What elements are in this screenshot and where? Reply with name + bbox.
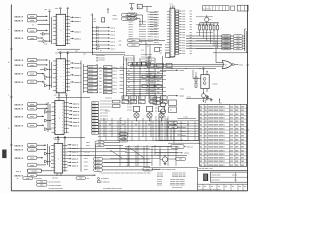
- svg-text:xxx: xxx: [55, 8, 58, 10]
- bus U3 left vertical: [47, 102, 49, 132]
- bottom-center gate cluster: [143, 168, 153, 171]
- svg-text:xxxx x: xxxx x: [72, 155, 79, 157]
- svg-text:xxx x: xxx x: [126, 159, 130, 161]
- svg-text:xxxx x: xxxx x: [74, 31, 81, 33]
- svg-text:xxx: xxx: [45, 9, 48, 11]
- svg-text:xxxxx xxxx xxxx x: xxxxx xxxx xxxx x: [208, 117, 225, 119]
- net label box right row 1: [222, 35, 232, 38]
- svg-text:x x x x x x: x x x x x x: [203, 8, 211, 10]
- svg-text:xxxxx xxxx xxxx x: xxxxx xxxx xxxx x: [208, 132, 225, 134]
- mid right stack rects: [153, 97, 160, 100]
- IC U7 body: [201, 75, 209, 89]
- wires label col to U5: [139, 22, 146, 42]
- svg-text:xxxx x: xxxx x: [73, 107, 80, 109]
- svg-text:xxxx xx: xxxx xx: [154, 36, 159, 38]
- svg-text:xx xxxxxxx xxxx xxx xxxx: xx xxxxxxx xxxx xxx xxxx: [103, 188, 122, 190]
- net label box right row 1 b: [234, 35, 243, 38]
- svg-text:xxx: xxx: [190, 29, 193, 31]
- ground below Q5: [164, 162, 166, 163]
- svg-text:xx xxxxxxx: xx xxxxxxx: [101, 178, 109, 180]
- svg-text:xxx x: xxx x: [113, 89, 117, 91]
- svg-text:xxx: xxx: [190, 27, 193, 29]
- svg-text:xxx x: xxx x: [111, 49, 116, 51]
- svg-text:xxx: xxx: [219, 102, 222, 104]
- svg-text:xxxx: xxxx: [104, 85, 108, 87]
- svg-text:xxxx: xxxx: [182, 29, 185, 31]
- label column left of U5 ovals: [127, 13, 137, 16]
- bypass capacitor C3: [92, 30, 93, 31]
- svg-text:xx: xx: [91, 15, 93, 17]
- net row y140.2 right: [155, 139, 182, 141]
- IC U4 power pin B: [64, 140, 66, 144]
- mid right vertical drops: [156, 116, 168, 141]
- IC U2 output wire y=82.0: [70, 81, 72, 83]
- svg-text:xxx: xxx: [87, 178, 90, 180]
- bypass capacitor C5 label: [108, 37, 110, 39]
- revision strip extension: [231, 6, 235, 10]
- svg-text:xxxxx xxxx xxxx x: xxxxx xxxx xxxx x: [208, 128, 225, 130]
- IC U5 left pins and labels: [167, 12, 170, 43]
- notes separator line: [152, 167, 198, 169]
- svg-text:xxx: xxx: [97, 166, 100, 168]
- svg-text:xx: xx: [96, 61, 98, 63]
- svg-text:xx: xx: [100, 50, 102, 52]
- wires to table left edge: [160, 140, 199, 142]
- arrow below Q6: [203, 98, 205, 101]
- svg-text:xxx x: xxx x: [111, 38, 116, 40]
- svg-text:x xxx: x xxx: [184, 117, 188, 119]
- bypass capacitor C3 label: [108, 30, 110, 32]
- IC U2 left pins: [53, 61, 56, 91]
- wires left of U5 feed rows: [150, 12, 158, 34]
- resistor bank bus: [200, 22, 219, 24]
- sub-IC text rows: [146, 58, 156, 63]
- svg-text:xxx: xxx: [122, 137, 125, 139]
- net label row y118.5 mid right: [178, 117, 197, 119]
- bypass capacitor C6: [92, 41, 93, 42]
- svg-text:xxxx xx: xxxx xx: [154, 39, 159, 41]
- svg-text:xxxx xx: xxxx xx: [187, 146, 193, 148]
- svg-text:xxxx-x: xxxx-x: [15, 60, 24, 62]
- svg-text:xx xxx: xx xxx: [127, 104, 132, 106]
- svg-text:xxx x: xxx x: [111, 27, 116, 29]
- svg-text:7: 7: [8, 95, 9, 97]
- zone tick right border y130: [246, 129, 249, 131]
- svg-text:xx: xx: [96, 92, 98, 94]
- svg-text:xxx: xxx: [26, 178, 29, 180]
- svg-text:xxxx x: xxxx x: [73, 122, 80, 124]
- resistor RN5: [213, 23, 215, 26]
- svg-text:xx: xx: [244, 186, 246, 188]
- net row y152.8 right: [155, 152, 182, 154]
- IC U3 left pins: [52, 103, 55, 132]
- vertical drop x140: [139, 58, 141, 99]
- svg-text:xx: xx: [225, 186, 227, 188]
- IC U3 power pin B: [65, 97, 67, 101]
- wire below RN5: [213, 30, 215, 46]
- svg-text:xxx: xxx: [237, 48, 240, 50]
- svg-text:xxx: xxx: [119, 40, 122, 42]
- svg-text:x: x: [58, 158, 59, 160]
- svg-text:xxxxx xxxx xxxx x: xxxxx xxxx xxxx x: [208, 106, 225, 108]
- svg-text:xxxx: xxxx: [182, 21, 185, 23]
- mid-bottom extra verticals: [100, 121, 195, 141]
- right bus to border connections: [245, 28, 247, 30]
- net label box right row 6: [222, 47, 232, 50]
- svg-text:xxx: xxx: [190, 21, 193, 23]
- svg-text:xxxxx xxxx xxxx x: xxxxx xxxx xxxx x: [208, 147, 225, 149]
- svg-text:xxxx: xxxx: [182, 53, 185, 55]
- svg-text:xxxx: xxxx: [182, 34, 185, 36]
- vertical drop x162.5: [162, 56, 164, 103]
- bus U2 left vertical 2: [51, 62, 53, 88]
- zone tick left border y97: [10, 96, 13, 98]
- wire J2-B4 to bus: [37, 164, 46, 166]
- svg-text:xxx: xxx: [157, 92, 160, 94]
- net label box U3-10: [92, 129, 99, 131]
- bottom-center diagonal wires: [110, 150, 122, 158]
- wire J1-A2 to bus: [37, 19, 48, 21]
- wire under U1 a: [57, 48, 80, 50]
- svg-text:xxx xxxxxx: xxx xxxxxx: [212, 180, 220, 182]
- transistor Q6 below U7: [202, 94, 206, 98]
- net label box U3-8: [92, 123, 99, 125]
- svg-text:xxxx: xxxx: [92, 109, 95, 111]
- svg-text:x xxxx: x xxxx: [179, 70, 185, 72]
- svg-text:xxx: xxx: [155, 105, 158, 107]
- bypass capacitor C7 label: [108, 44, 110, 46]
- wire row right y36.0: [186, 35, 234, 37]
- mid extra horizontal wires y70-98: [127, 72, 167, 96]
- svg-text:xxx x: xxx x: [113, 81, 117, 83]
- svg-text:xxxx-x: xxxx-x: [15, 65, 24, 67]
- signal table: [200, 105, 247, 167]
- svg-text:xxx: xxx: [160, 50, 163, 52]
- net label box U2-4: [88, 76, 98, 79]
- OR gate input wire bottom: [130, 65, 223, 67]
- svg-text:xxxx: xxxx: [92, 133, 95, 135]
- svg-text:xxxx: xxxx: [30, 149, 34, 151]
- svg-text:xx: xx: [141, 42, 143, 44]
- svg-text:xxxx: xxxx: [30, 60, 34, 62]
- svg-text:xxx: xxx: [97, 162, 100, 164]
- sub-IC box row: [147, 64, 154, 68]
- gate cluster group4 b: [45, 160, 48, 163]
- wire below RN1: [199, 30, 201, 36]
- net label box U3-4: [92, 111, 99, 113]
- svg-text:xxx: xxx: [94, 19, 97, 21]
- svg-text:xxxxx: xxxxx: [88, 74, 93, 76]
- svg-text:xxxxx: xxxxx: [88, 88, 93, 90]
- svg-text:xxx x: xxx x: [111, 45, 116, 47]
- wire under U3: [55, 136, 85, 138]
- svg-text:6: 6: [8, 128, 9, 130]
- svg-text:xxxx-x: xxxx-x: [15, 108, 24, 110]
- svg-text:xxx: xxx: [99, 70, 102, 72]
- svg-text:xxxx: xxxx: [104, 74, 108, 76]
- border right: [247, 5, 249, 191]
- zone tick left border y145: [10, 144, 13, 146]
- svg-text:xxxx: xxxx: [182, 13, 185, 15]
- svg-text:xxx x: xxx x: [113, 74, 117, 76]
- net label box U3-3: [92, 108, 99, 110]
- svg-text:xxxx-x: xxxx-x: [15, 158, 24, 160]
- svg-text:xxx: xxx: [55, 53, 58, 55]
- svg-text:xxxxx xxxx xxxx x: xxxxx xxxx xxxx x: [208, 154, 225, 156]
- svg-text:xxxxx xxxx xxxx x: xxxxx xxxx xxxx x: [208, 161, 225, 163]
- svg-text:xxx: xxx: [139, 102, 142, 104]
- svg-text:xxxx x: xxxx x: [72, 166, 79, 168]
- wire below RN2: [202, 30, 204, 39]
- component box right of bus top: [102, 18, 105, 22]
- wire J2-A4 to bus: [37, 124, 44, 126]
- svg-text:xxx xx xx xxx xx: xxx xx xx xxx xx: [100, 101, 112, 103]
- svg-text:xxx x: xxx x: [113, 85, 117, 87]
- svg-text:xxxx: xxxx: [113, 15, 117, 17]
- wire below RN3: [206, 30, 208, 41]
- wire from top-center row1: [135, 14, 143, 16]
- capacitor C1: [205, 97, 207, 101]
- svg-text:4xxxx: 4xxxx: [181, 135, 186, 137]
- svg-text:xxx: xxx: [155, 102, 158, 104]
- svg-text:xxx: xxx: [157, 66, 160, 68]
- mid connector verticals x146 x150: [145, 40, 147, 56]
- wire mid label A: [140, 39, 166, 41]
- svg-text:xxxx: xxxx: [182, 16, 185, 18]
- svg-text:xxxxx: xxxxx: [88, 84, 93, 86]
- svg-text:xx: xx: [170, 110, 172, 112]
- svg-text:xxxx xx: xxxx xx: [154, 20, 159, 22]
- wire to net label box U2-5: [84, 80, 88, 82]
- mid dense text extra rows y55-61: [141, 54, 152, 63]
- vertical drop x149: [148, 56, 150, 103]
- svg-text:xx: xx: [232, 186, 234, 188]
- svg-text:xxxx: xxxx: [86, 145, 90, 147]
- legend row 3: [37, 183, 48, 186]
- svg-text:xxx: xxx: [122, 133, 125, 135]
- wire J2-A1 to bus: [37, 103, 48, 105]
- svg-text:xx: xx: [17, 178, 19, 180]
- svg-text:xxxx: xxxx: [130, 18, 134, 20]
- svg-text:xxx x: xxx x: [113, 67, 117, 69]
- svg-text:xx xxx: xx xxx: [127, 101, 132, 103]
- IC U5 top power stubs: [171, 5, 174, 8]
- IC U4 output wire y=155.3: [67, 154, 70, 156]
- IC U3 output wire y=114.6: [69, 114, 71, 116]
- svg-text:4xxxx: 4xxxx: [181, 127, 186, 129]
- signal table cell text: [200, 106, 245, 166]
- wire J1-B3 to bus: [37, 73, 44, 75]
- svg-text:xxx xx xxx: xxx xx xxx: [100, 116, 108, 118]
- wire J1-A1 to bus: [37, 15, 48, 17]
- IC U2 output wire y=74.9: [70, 74, 72, 76]
- svg-text:xxxx x: xxxx x: [73, 103, 80, 105]
- bypass capacitor C2 label: [108, 27, 110, 29]
- net label box right row 3: [222, 40, 232, 43]
- net label box U2-8: [88, 90, 98, 93]
- svg-text:xxx: xxx: [160, 45, 163, 47]
- svg-text:xxxx: xxxx: [84, 158, 88, 160]
- vertical drop x134: [133, 56, 135, 103]
- wire J1-A4 to bus: [37, 37, 43, 39]
- wire under U2: [56, 96, 90, 98]
- svg-text:xxx: xxx: [160, 52, 163, 54]
- svg-text:xxxx: xxxx: [30, 165, 34, 167]
- wire row right y38.5: [186, 38, 234, 40]
- svg-text:xxxx xx: xxxx xx: [154, 42, 159, 44]
- wire to net label box U2-1: [84, 66, 88, 68]
- IC U4 output wire y=165.8: [67, 165, 70, 167]
- IC U4 output wire y=148.3: [67, 147, 70, 149]
- oval label right of Q5: [176, 157, 186, 160]
- svg-text:xxxx: xxxx: [84, 162, 88, 164]
- svg-text:xxx: xxx: [119, 45, 122, 47]
- svg-text:4xxxx: 4xxxx: [181, 131, 186, 133]
- svg-text:xxxx-x: xxxx-x: [15, 38, 24, 40]
- svg-text:xxxx: xxxx: [92, 118, 95, 120]
- resistor RN4: [209, 23, 211, 26]
- mid small box x165: [166, 53, 171, 58]
- IC U4 output wire y=144.8: [67, 144, 70, 146]
- registration blob left margin: [2, 150, 6, 159]
- svg-text:xxx xx xx xxx xx: xxx xx xx xxx xx: [100, 107, 112, 109]
- svg-text:xx: xx: [120, 123, 122, 125]
- net label box U2-6: [88, 83, 98, 86]
- svg-text:xxxx: xxxx: [92, 103, 95, 105]
- svg-text:xxx: xxx: [161, 98, 164, 100]
- svg-text:xxxx x: xxxx x: [74, 17, 81, 19]
- svg-text:xxxxx xxxx xxxx x: xxxxx xxxx xxxx x: [208, 114, 225, 116]
- svg-text:xxxx-x: xxxx-x: [15, 175, 24, 177]
- svg-text:xxx: xxx: [190, 24, 193, 26]
- svg-text:xxxxx: xxxxx: [88, 91, 93, 93]
- svg-text:xx: xx: [96, 57, 98, 59]
- svg-text:xx x: xx x: [83, 53, 86, 55]
- net label box U2-3: [88, 72, 98, 75]
- net label box right row 6 b: [234, 47, 243, 50]
- transistor Q2: [147, 113, 152, 118]
- bottom-center extra text: [126, 159, 130, 168]
- IC U1 right pin ladder: [67, 16, 69, 45]
- mid-bottom horizontal wires: [98, 120, 199, 122]
- wire row right y41.0: [186, 40, 234, 42]
- svg-text:xxxx-x: xxxx-x: [15, 31, 24, 33]
- svg-text:xxx: xxx: [157, 72, 160, 74]
- IC U3 power pin A: [58, 97, 60, 100]
- svg-text:xxxxx xxxx xxxx x: xxxxx xxxx xxxx x: [208, 158, 225, 160]
- svg-text:xxxx: xxxx: [92, 130, 95, 132]
- svg-text:xxx: xxx: [190, 13, 193, 15]
- wire row right y43.5: [186, 43, 234, 45]
- svg-text:xxxx-x: xxxx-x: [15, 125, 24, 127]
- mid small box x154: [155, 48, 160, 52]
- bypass capacitor C6 label: [108, 41, 110, 43]
- svg-text:xx xxx xxxx xx: xx xxx xxxx xx: [141, 61, 152, 63]
- svg-text:xxx: xxx: [190, 16, 193, 18]
- junction dots bottom cluster: [157, 155, 158, 156]
- inverter cluster group2 b: [45, 76, 48, 79]
- svg-text:xx xxxxx xxxxxxx: xx xxxxx xxxxxxx: [49, 185, 62, 187]
- wire J2-B1 to bus: [37, 144, 46, 146]
- svg-text:xxxx-x: xxxx-x: [15, 150, 24, 152]
- svg-text:xxxx: xxxx: [182, 42, 185, 44]
- svg-text:xx: xx: [120, 117, 122, 119]
- relay grid second row boxes: [122, 100, 129, 103]
- svg-text:xxxx x: xxxx x: [73, 118, 80, 120]
- svg-text:x1: x1: [225, 65, 227, 67]
- svg-text:-xxxxx: -xxxxx: [212, 84, 217, 86]
- svg-text:xxxxx xxxx xxxx x: xxxxx xxxx xxxx x: [208, 121, 225, 123]
- svg-text:xx xxx: xx xxx: [127, 110, 132, 112]
- svg-text:xxx: xxx: [146, 169, 149, 171]
- driver box above Q3: [159, 106, 165, 111]
- IC U3 body: [55, 101, 64, 135]
- IC U1 output wire y=21.3: [70, 20, 72, 22]
- svg-text:x xxxx: x xxxx: [179, 96, 185, 98]
- svg-text:xx xxx xxxxxxxx: xx xxx xxxxxxxx: [49, 182, 61, 184]
- svg-text:xxxx: xxxx: [30, 30, 34, 32]
- mid right oval components: [169, 121, 178, 124]
- svg-text:xxx: xxx: [155, 108, 158, 110]
- IC U1 body: [56, 14, 65, 45]
- resistor RN1: [199, 23, 201, 26]
- svg-text:xx: xx: [218, 186, 220, 188]
- wire J2-B5 to bus: [37, 174, 96, 176]
- svg-text:xx: xx: [198, 186, 200, 188]
- svg-text:xx xxxx xxx: xx xxxx xxx: [146, 76, 155, 78]
- svg-text:xx: xx: [210, 19, 212, 21]
- svg-text:xx: xx: [96, 68, 98, 70]
- IC U5 lower left labels: [160, 45, 163, 55]
- mid small boxes grid: [142, 75, 147, 78]
- svg-text:xxx x: xxx x: [111, 31, 116, 33]
- svg-text:xx: xx: [128, 70, 130, 72]
- svg-text:xxxx: xxxx: [182, 27, 185, 29]
- svg-text:xxxx: xxxx: [104, 78, 108, 80]
- relay grid top row boxes: [122, 96, 129, 99]
- mid-bottom wire dots: [110, 124, 111, 125]
- svg-text:xxxx: xxxx: [104, 81, 108, 83]
- svg-text:xx xxx xx: xx xxx xx: [105, 97, 112, 99]
- wire mid right to table: [198, 104, 200, 140]
- svg-text:xx: xx: [128, 82, 130, 84]
- wire to net label box U2-4: [84, 76, 88, 78]
- svg-text:xxxx: xxxx: [30, 82, 34, 84]
- svg-text:xx: xx: [96, 71, 98, 73]
- top-center small box: [137, 4, 142, 9]
- svg-text:xxxx: xxxx: [92, 112, 95, 114]
- svg-text:xx: xx: [128, 78, 130, 80]
- svg-text:xxxx xx: xxxx xx: [154, 22, 159, 24]
- bypass capacitor C7: [92, 44, 93, 45]
- svg-text:xxxx x: xxxx x: [73, 111, 80, 113]
- svg-text:xxxxx xxxx xxxx x: xxxxx xxxx xxxx x: [208, 143, 225, 145]
- mid-bottom oval labels: [119, 133, 128, 136]
- sub-IC text rows 2: [146, 71, 155, 78]
- IC U4 left pins: [51, 146, 54, 171]
- svg-text:xxxx x: xxxx x: [73, 115, 80, 117]
- arrow label right c: [168, 95, 177, 97]
- svg-text:xxx: xxx: [99, 74, 102, 76]
- legend row 2 right: [98, 181, 101, 183]
- svg-text:xxx: xxx: [157, 80, 160, 82]
- svg-text:xxxx: xxxx: [132, 44, 136, 46]
- svg-text:xxx x: xxx x: [126, 162, 130, 164]
- gate cluster below row 5: [43, 40, 46, 43]
- svg-text:xxxx: xxxx: [182, 40, 185, 42]
- wire J2-A3 to bus: [37, 115, 44, 117]
- svg-text:xxxx: xxxx: [84, 165, 88, 167]
